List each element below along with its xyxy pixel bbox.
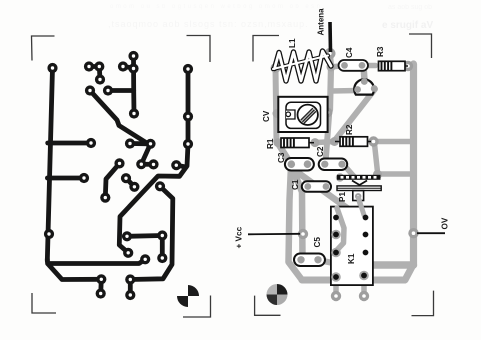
0V lead (417, 232, 445, 234)
antenna lead (328, 22, 332, 52)
wire z shape (141, 144, 153, 165)
wire C2 right to P1 (343, 164, 354, 177)
node CV left pad (273, 109, 282, 118)
svg-text:OV: OV (441, 217, 450, 229)
wire C4 to R3 (363, 63, 376, 69)
svg-text:L1: L1 (288, 38, 297, 48)
wire pair h236 (127, 233, 162, 239)
wire below CV to C2 (326, 116, 330, 163)
corner bracket left BR (183, 296, 211, 318)
node mid pads (85, 85, 95, 95)
registration target right (267, 284, 288, 305)
coil L1 (273, 51, 331, 81)
corner bracket right BL (255, 296, 281, 316)
corner bracket right TL (253, 34, 434, 316)
wire R1 to R2 (315, 142, 334, 143)
trimpot P1 (337, 175, 381, 201)
transistor Q1 (354, 78, 377, 95)
wire diag pads (105, 163, 119, 197)
wire bottom horizontal (47, 259, 145, 264)
svg-text:C5: C5 (313, 237, 322, 248)
wire lower second line (48, 264, 101, 280)
node pads top group (84, 61, 94, 71)
wire P1 right to rail (378, 171, 414, 177)
svg-text:as aob sug ob: as aob sug ob (388, 4, 432, 11)
+Vcc lead (248, 233, 300, 236)
node 0V donut (408, 228, 418, 238)
corner bracket right BR (412, 291, 434, 316)
capacitor C1 (302, 181, 331, 192)
capacitor C3 (285, 158, 314, 171)
capacitor C5 (294, 254, 325, 267)
resistor R1 (281, 138, 314, 148)
node R2 left pad (330, 137, 339, 146)
node L1 right junction (327, 63, 336, 72)
node +Vcc donut (298, 229, 308, 239)
wire P1 square to K1 (358, 198, 364, 216)
svg-text:C1: C1 (291, 179, 300, 190)
svg-text:,tsaoqmoo aob slsogs tsn: ozsn: ,tsaoqmoo aob slsogs tsn: ozsn,msxaup. (108, 19, 309, 29)
svg-text:Antena: Antena (317, 8, 326, 36)
wire pad pair v1 (98, 279, 103, 293)
node R3 right donut (403, 61, 413, 71)
svg-text:C2: C2 (316, 146, 325, 157)
corner bracket left TR (187, 36, 211, 63)
svg-text:K1: K1 (347, 253, 356, 264)
relay K1 (331, 198, 373, 285)
pads left panel (44, 51, 193, 300)
wire transistor right diagonal (334, 89, 375, 142)
svg-text:C3: C3 (277, 152, 286, 163)
wire left rail (47, 68, 52, 261)
wire L1 to C4 (331, 66, 344, 68)
wire K1 inner (338, 209, 344, 240)
node R2 right donut (368, 136, 378, 146)
node rail top pad (47, 63, 57, 73)
svg-text:CV: CV (262, 110, 271, 122)
wire right lower chain (130, 186, 173, 279)
gray pads / donuts right panel (271, 48, 419, 301)
wire pad to bend (176, 165, 186, 167)
svg-text:R1: R1 (266, 138, 275, 149)
wire transistor left link (331, 88, 358, 94)
capacitor C4 (339, 60, 369, 71)
wire pair h143 (130, 141, 151, 146)
node CV right pad (323, 108, 333, 118)
node K1 bottom donuts (331, 291, 341, 301)
wire K1 bottom stubs (333, 277, 339, 294)
wire bottom horizontal (302, 277, 404, 284)
node antenna pad (325, 48, 336, 59)
wire C3left loop down (289, 166, 303, 280)
wire right rail chain (119, 69, 188, 253)
wire R3 right to rail (408, 63, 414, 69)
wire C5 right to K1 (318, 260, 333, 263)
wire right rail (410, 64, 417, 264)
node right rail pads (183, 64, 193, 74)
ghost bleed-through text (108, 4, 433, 31)
corner bracket left BL (32, 293, 56, 313)
corner bracket right TR (409, 34, 432, 58)
wire mid vertical (131, 56, 136, 114)
wire antenna vertical (330, 54, 331, 110)
wire R2 right to rail (374, 139, 414, 145)
wire branch y143 (48, 141, 91, 146)
svg-text:R2: R2 (345, 124, 354, 135)
wire branch under C1 to K1 (293, 169, 347, 253)
svg-text:R3: R3 (376, 46, 385, 57)
wire steep diagonal to C3/C5 (277, 141, 303, 260)
svg-text:P1: P1 (338, 192, 347, 202)
wire branch y178 (47, 176, 84, 181)
wire pair to rail (123, 67, 134, 69)
gray copper net (276, 54, 414, 294)
wire R2 right down to P1 (375, 144, 378, 172)
registration target left (177, 285, 199, 307)
node lower pads (44, 229, 54, 239)
wire long diagonal (90, 91, 151, 144)
resistor R3 (379, 61, 409, 70)
svg-text:C4: C4 (345, 47, 354, 58)
wire K1 inner trace (337, 208, 344, 250)
wire top pair (89, 64, 99, 69)
node P1 track end pads (336, 173, 344, 181)
pad holes left panel (47, 54, 189, 296)
svg-text:+ Vcc: + Vcc (235, 226, 244, 248)
node R1 right pad (311, 138, 320, 147)
wire C4 to transistor top (364, 66, 365, 80)
wire chamfer right (405, 264, 414, 280)
node L1 left pad (271, 63, 281, 73)
node R1 left pad (274, 138, 283, 147)
trimmer CV (278, 97, 327, 132)
corner bracket left TL (32, 36, 211, 318)
wire K1 right to rail (373, 261, 414, 269)
wire L1 left down (276, 68, 277, 141)
capacitor C2 (319, 159, 348, 171)
wire small diag pair (126, 178, 134, 187)
svg-text:e srugif aV: e srugif aV (382, 20, 433, 31)
resistor R2 (335, 137, 371, 147)
